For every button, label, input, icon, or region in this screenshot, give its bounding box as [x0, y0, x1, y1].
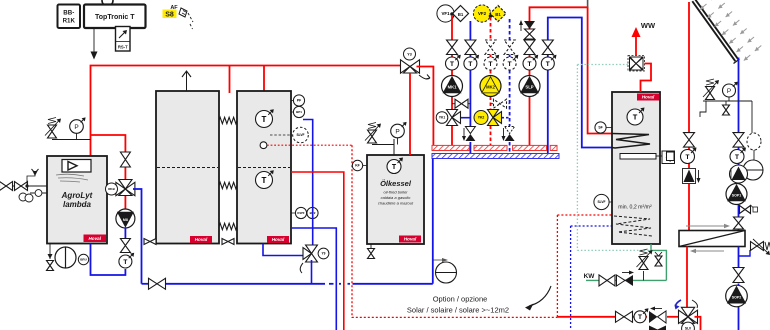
- sensor SLV: [682, 322, 695, 330]
- plate heat exchanger: [679, 231, 745, 247]
- check valve solar return: [730, 165, 748, 183]
- wire WW charge flow: [530, 7, 613, 145]
- drain solar: [700, 101, 730, 117]
- thermometer WW return: [541, 55, 556, 70]
- mixing valve YK2: [488, 110, 510, 126]
- sensor B1: [453, 6, 469, 22]
- label KW: [584, 273, 596, 280]
- wire MK1 flow: [451, 15, 453, 145]
- sensor VF2 optional: [473, 5, 490, 22]
- flow arrow HX bottom: [690, 249, 724, 254]
- svg-text:T: T: [489, 61, 493, 68]
- sensor VF1: [437, 5, 454, 22]
- safety valve group above boiler: [45, 118, 91, 140]
- curved arrow Y9: [300, 263, 303, 273]
- svg-text:B1: B1: [458, 12, 464, 17]
- svg-text:T: T: [262, 176, 267, 185]
- svg-text:oil-fired boiler: oil-fired boiler: [383, 190, 408, 195]
- pressure gauge solar: [723, 82, 738, 101]
- curved arrow option: [525, 286, 551, 311]
- valve solar flow: [684, 133, 695, 148]
- pressure gauge P oil: [391, 122, 407, 145]
- svg-text:BB-: BB-: [63, 10, 74, 17]
- flue fan circle: [55, 247, 76, 268]
- svg-text:T: T: [468, 61, 472, 68]
- connector zigzags between tanks: [219, 117, 237, 229]
- sensor YK1: [436, 112, 448, 124]
- vent arrow tank 1: [182, 71, 191, 91]
- svg-text:WW: WW: [641, 21, 656, 30]
- valve main return: [149, 278, 166, 289]
- wire solar bottom line: [557, 316, 679, 318]
- bracket square: [667, 152, 675, 161]
- svg-text:MK1: MK1: [448, 85, 458, 90]
- svg-text:SLVF: SLVF: [297, 133, 305, 137]
- wire MK2 flow dashed: [490, 17, 492, 145]
- check valve WW flow: [519, 20, 535, 39]
- valve MK2 flow: [485, 40, 496, 55]
- svg-text:Ölkessel: Ölkessel: [380, 179, 412, 188]
- thermometer MK1 flow: [446, 55, 461, 70]
- wire SLV east stub: [695, 317, 701, 330]
- svg-text:KSPF: KSPF: [297, 211, 305, 215]
- wire pump to valve: [124, 228, 126, 239]
- wire WW green solar pipe: [651, 244, 666, 280]
- partial pump bottom edge: [649, 326, 666, 330]
- sun rays: [700, 0, 761, 61]
- wire tank2 bottom to Y9: [263, 244, 303, 256]
- bypass valve MK2: [491, 99, 510, 108]
- svg-text:Hoval: Hoval: [642, 95, 655, 100]
- label min area: [618, 205, 652, 211]
- manifold return bar: [432, 154, 559, 159]
- electric insert WW: [620, 151, 675, 164]
- svg-text:AgroLyt: AgroLyt: [61, 191, 93, 200]
- svg-text:MK2: MK2: [486, 85, 496, 90]
- svg-text:SLP: SLP: [525, 85, 533, 90]
- svg-text:RKB: RKB: [108, 187, 115, 191]
- svg-text:VF1: VF1: [441, 11, 450, 16]
- wire tank2 mid flow: [291, 172, 344, 330]
- safety valve HX: [751, 239, 770, 255]
- svg-text:SOP1: SOP1: [732, 193, 742, 197]
- valve shunt bottom: [120, 239, 130, 253]
- sensor T9: [318, 248, 329, 259]
- room station RS-T: [116, 27, 131, 52]
- check valve MK2 return: [502, 127, 515, 142]
- wire WW outlet arrow: [632, 27, 641, 56]
- boiler AgroLyt lambda: [47, 156, 107, 244]
- pump SOP1: [726, 184, 747, 205]
- svg-text:Hoval: Hoval: [404, 237, 417, 242]
- sensor BRU: [78, 254, 88, 264]
- bypass valve MK1: [452, 99, 470, 108]
- buffer tank 2: [237, 91, 291, 244]
- valve MK1 return: [465, 40, 476, 55]
- pump SLP: [519, 76, 540, 97]
- wire MK2 return dashed: [509, 19, 511, 154]
- thermometer solar bottom: [634, 308, 649, 323]
- drain valve tank2: [222, 239, 234, 245]
- svg-text:Y3: Y3: [407, 52, 411, 56]
- wire WW charge return: [548, 18, 612, 154]
- pump SOP2: [726, 285, 748, 307]
- wire tank2 low return: [291, 228, 336, 330]
- wire shunt riser: [91, 135, 126, 180]
- wire cold mix dotted teal: [577, 65, 651, 251]
- svg-text:Y9: Y9: [322, 252, 326, 256]
- svg-text:T: T: [262, 115, 267, 124]
- thermometer tank2 bottom: [256, 170, 274, 188]
- svg-text:chaudière à mazout: chaudière à mazout: [378, 201, 414, 206]
- pressure gauge P boiler: [70, 117, 86, 139]
- outdoor sensor AF / S8: [163, 5, 194, 29]
- thermometer MK2 flow: [484, 55, 499, 70]
- solar collector panel: [692, 0, 739, 64]
- valve solar return: [733, 133, 744, 148]
- controller BB-R1K: [58, 5, 81, 29]
- valve above HX: [734, 217, 744, 229]
- svg-text:S8: S8: [165, 12, 174, 19]
- wire return bar drop: [432, 159, 434, 284]
- wire drop to buffer 2 top: [263, 66, 265, 93]
- valve WW return: [542, 40, 553, 55]
- controller clock circle: [102, 0, 113, 6]
- wire WW tank to mixer: [641, 64, 652, 93]
- pump MK2: [480, 76, 501, 97]
- wire Y9 to return: [311, 260, 313, 284]
- wire Y3 to boiler: [409, 73, 411, 155]
- wire blue from 3way to return: [133, 189, 142, 284]
- svg-text:T: T: [735, 154, 739, 161]
- svg-text:caldaia a gasolio: caldaia a gasolio: [381, 195, 412, 200]
- safety valve KW: [637, 249, 653, 280]
- wire solar flow: [688, 2, 690, 231]
- thermal discharge safety TAS: [0, 169, 47, 202]
- svg-text:SLVF: SLVF: [598, 200, 606, 204]
- svg-text:T: T: [546, 61, 550, 68]
- wire solar option blue dashed: [571, 226, 612, 330]
- sensor Y3: [404, 48, 416, 60]
- svg-text:P: P: [395, 128, 399, 135]
- expansion vessel: [433, 258, 457, 283]
- svg-text:KF: KF: [355, 164, 360, 168]
- valve MK2 return: [504, 40, 515, 55]
- valve KW: [599, 275, 615, 286]
- sensor SLVF tank2: [270, 127, 308, 143]
- svg-text:Hoval: Hoval: [195, 237, 208, 242]
- manifold flow bar: [432, 145, 557, 150]
- curved arrow Y3: [419, 75, 430, 80]
- wire solar return: [738, 58, 740, 231]
- sensor BP1: [291, 106, 305, 117]
- svg-text:B1: B1: [495, 12, 501, 17]
- svg-text:T: T: [123, 259, 127, 266]
- thermometer MK1 return: [464, 55, 479, 70]
- valve WW flow: [524, 40, 535, 55]
- safety group oil boiler: [365, 123, 394, 156]
- svg-text:R1K: R1K: [63, 18, 76, 25]
- wire boiler flow line: [91, 66, 401, 157]
- charge coil WW: [612, 134, 650, 149]
- mixing valve RK: [116, 180, 135, 196]
- svg-text:YK1: YK1: [439, 116, 445, 120]
- svg-text:SF: SF: [598, 126, 602, 130]
- valve solar bottom: [616, 311, 633, 322]
- svg-text:T: T: [450, 61, 454, 68]
- sensor SLVF WW: [594, 194, 613, 209]
- wire solar option dotted right riser: [557, 215, 612, 317]
- wire drop to buffer gap: [229, 66, 231, 94]
- flow arrow HX top: [686, 224, 730, 229]
- svg-text:BRU: BRU: [80, 258, 87, 262]
- valve Y9 three-way: [303, 245, 317, 262]
- wire Y3 to manifold: [417, 67, 434, 146]
- svg-text:T: T: [528, 61, 532, 68]
- svg-text:SOP2: SOP2: [732, 295, 742, 299]
- sensor SF: [595, 122, 612, 133]
- wire boiler return bottom: [91, 244, 126, 276]
- svg-text:M8: M8: [123, 218, 128, 222]
- sensor YK2: [474, 111, 488, 125]
- curved arrow SLV blue: [675, 300, 682, 310]
- wire expansion stub top: [587, 0, 589, 7]
- drain funnel KW: [655, 252, 662, 266]
- svg-text:T: T: [633, 113, 638, 122]
- sensor BP2: [307, 207, 318, 218]
- thermometer WW flow: [523, 55, 538, 70]
- wire HX return down: [738, 247, 740, 330]
- expansion vessels solar: [743, 101, 763, 180]
- wire main return line: [142, 283, 433, 285]
- svg-text:P: P: [74, 124, 78, 131]
- pump MK1: [442, 76, 463, 97]
- svg-text:YK2: YK2: [478, 116, 485, 120]
- mixing valve YK1: [447, 110, 471, 126]
- svg-text:Solar / solaire / solare >~12m: Solar / solaire / solare >~12m2: [407, 306, 509, 315]
- svg-text:T: T: [508, 61, 512, 68]
- drain oil boiler: [368, 244, 375, 259]
- label option: [433, 295, 488, 304]
- svg-text:min. 0,2 m²/m²: min. 0,2 m²/m²: [618, 205, 652, 211]
- svg-text:T: T: [392, 164, 397, 171]
- buffer tank 1: [156, 91, 219, 244]
- curved arrow SLV black: [692, 300, 697, 308]
- thermometer solar flow: [681, 148, 697, 164]
- sensor pocket circle tank2: [260, 142, 267, 149]
- thermometer tank2 top: [256, 109, 274, 127]
- svg-text:Hoval: Hoval: [88, 236, 101, 241]
- check valve KW: [617, 271, 635, 287]
- wire mix to pump: [124, 196, 126, 209]
- svg-text:VF2: VF2: [478, 11, 487, 16]
- svg-text:BP1: BP1: [296, 110, 302, 114]
- sensor line red dotted tank2: [267, 144, 352, 146]
- wire stub HX safety: [739, 250, 751, 256]
- valve SLV three-way: [679, 307, 698, 323]
- valve MK1 flow: [447, 40, 458, 55]
- thermometer WW tank: [627, 108, 645, 126]
- thermometer solar return: [730, 148, 746, 164]
- calorifier WW tank: [612, 92, 660, 244]
- svg-text:KW: KW: [584, 273, 596, 280]
- valve shunt top: [120, 152, 130, 167]
- drain valve boiler: [47, 244, 54, 271]
- svg-text:RS-T: RS-T: [118, 45, 128, 50]
- svg-text:lambda: lambda: [63, 200, 92, 209]
- pump boiler circuit: [116, 209, 135, 228]
- svg-text:Hoval: Hoval: [272, 237, 285, 242]
- wire BP1 to Y9: [303, 120, 313, 245]
- mixing valve WW thermostatic: [628, 56, 645, 72]
- svg-text:T: T: [686, 154, 690, 161]
- drain valve tank1: [144, 239, 156, 245]
- check valve solar flow: [683, 169, 701, 184]
- sensor KSPF: [291, 207, 307, 218]
- thermometer oil boiler: [387, 158, 403, 174]
- valve SOP2 suction: [733, 268, 744, 283]
- svg-text:T: T: [638, 314, 642, 321]
- svg-text:P: P: [727, 88, 731, 95]
- valve Y3 three-way: [401, 60, 420, 73]
- sensor PF: [291, 95, 305, 106]
- thermometer boiler return: [119, 253, 134, 268]
- sensor KF: [352, 160, 367, 170]
- sensor RKB: [106, 183, 118, 195]
- wire controller to boiler flow: [91, 28, 98, 60]
- wire HX to SLV: [686, 247, 688, 312]
- controller TopTronic T: [84, 5, 146, 29]
- fill valve solar: [740, 205, 758, 214]
- svg-text:TopTronic T: TopTronic T: [95, 14, 135, 21]
- solar coil dashed WW: [614, 216, 652, 236]
- check valve solar bottom: [649, 307, 666, 324]
- label WW: [641, 21, 656, 30]
- wire MK1 return: [469, 21, 471, 154]
- wire solar option dotted left: [352, 145, 557, 317]
- solar safety group: [703, 79, 752, 101]
- svg-text:PF: PF: [297, 99, 301, 103]
- sensor B1 optional: [490, 6, 506, 22]
- check valve MK1 return: [462, 127, 475, 142]
- boiler Olkessel: [367, 155, 424, 244]
- wire KW line: [586, 279, 666, 281]
- thermometer MK2 return: [503, 55, 518, 70]
- svg-text:Option / opzione: Option / opzione: [433, 295, 488, 304]
